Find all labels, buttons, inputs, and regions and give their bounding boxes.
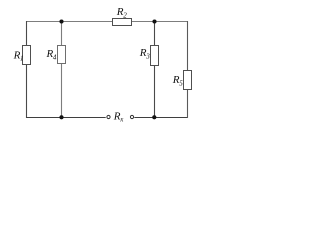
resistor R5 [184,71,192,90]
node junction bottom R3 [152,115,156,119]
svg-text:4: 4 [53,53,57,61]
wire R3 branch lower [154,66,156,118]
svg-text:3: 3 [145,52,150,60]
wire R3 branch upper [154,22,156,46]
resistor R3 [151,46,159,66]
wire right branch upper [187,21,189,71]
wire bottom-left segment [26,117,106,119]
node junction top R3 [152,19,156,23]
wire left branch lower [26,65,28,119]
resistor R4 [58,46,66,64]
wire top-left segment [26,21,113,23]
node junction bottom R4 [59,115,63,119]
wire R4 branch lower [61,64,63,118]
terminal b (open circle) [130,115,133,118]
terminal a (open circle) [107,115,110,118]
resistor R2 [113,19,132,26]
svg-text:2: 2 [123,11,127,19]
wire R4 branch upper [61,22,63,46]
resistor R1 [23,46,31,65]
wire top-right segment [132,21,188,23]
wire bottom-right segment [134,117,188,119]
wire right branch lower [187,90,189,119]
svg-text:1: 1 [20,54,24,63]
svg-text:5: 5 [179,79,183,87]
wire left branch upper [26,21,28,46]
node junction top R4 [59,19,63,23]
